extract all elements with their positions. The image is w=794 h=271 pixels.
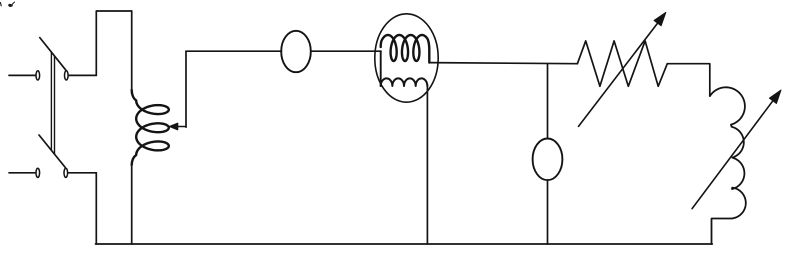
stray scan mark left edge — [0, 3, 2, 6]
switch linkage bar 1 — [50, 52, 52, 150]
terminal bottom-right — [64, 168, 68, 177]
wire wattmeter to resistor — [429, 63, 577, 64]
wire resistor to inductor — [667, 64, 710, 96]
wattmeter voltage coil lead down — [426, 86, 428, 244]
terminal top-left — [36, 71, 40, 80]
terminal top-right — [65, 71, 69, 80]
wire tap to ammeter — [186, 50, 282, 52]
wattmeter inner left lead — [380, 51, 382, 86]
switch blade bottom (open) — [39, 135, 65, 168]
wire top-left lead — [9, 74, 35, 76]
wire ammeter to wattmeter — [311, 50, 381, 52]
wire voltmeter branch top — [547, 64, 549, 139]
wattmeter voltage coil (humps) — [381, 78, 428, 86]
wattmeter case — [375, 14, 438, 102]
variable inductor coil — [710, 87, 746, 244]
wattmeter current coil — [381, 35, 430, 63]
wire bottom-left lead — [9, 172, 35, 174]
wire autotransformer right side down — [131, 11, 133, 94]
meter V (ellipse) — [533, 139, 563, 181]
autotransformer wiper arrow — [175, 126, 186, 128]
wire switch-bottom down — [95, 173, 97, 244]
inductor arrow — [692, 93, 779, 208]
bottom bus wire — [96, 243, 713, 245]
wire autotransformer bottom down — [131, 163, 133, 244]
wire switch-top up and over — [96, 11, 131, 75]
wire tap up — [185, 51, 187, 127]
rheostat arrow — [579, 16, 664, 127]
rheostat zigzag — [577, 41, 667, 86]
meter A (ellipse) — [281, 31, 311, 72]
autotransformer coil T — [132, 90, 169, 165]
stray scan mark blob — [9, 4, 13, 6]
switch linkage bar 2 — [54, 56, 56, 154]
wire voltmeter branch bottom — [547, 180, 549, 244]
wire top pole to autotransformer — [69, 74, 97, 76]
switch blade top (open) — [40, 38, 66, 71]
wire bottom pole right — [68, 172, 96, 174]
terminal bottom-left — [36, 168, 40, 177]
